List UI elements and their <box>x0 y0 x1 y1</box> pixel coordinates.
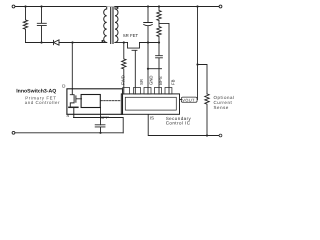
svg-text:GND: GND <box>149 75 154 85</box>
terminal input- <box>12 131 15 134</box>
svg-text:VOUT: VOUT <box>182 97 195 102</box>
node VOUT rail <box>196 5 198 7</box>
terminal input+ <box>12 5 15 8</box>
wire bottom-left rail <box>15 132 123 134</box>
capacitor clamp C <box>37 7 46 43</box>
resistor FWD R <box>122 43 126 94</box>
svg-text:S: S <box>66 113 69 118</box>
node clamp C bottom <box>40 41 42 43</box>
resistor divider upper <box>157 7 161 24</box>
svg-text:FWD: FWD <box>121 75 126 85</box>
node divider top <box>158 5 160 7</box>
IC secondary inner rect <box>125 97 176 110</box>
svg-text:BPS: BPS <box>158 76 163 85</box>
wire gnd tee <box>148 68 162 70</box>
node sense tap <box>196 63 198 65</box>
svg-text:InnoSwitch3-AQ: InnoSwitch3-AQ <box>16 89 56 95</box>
pin pill VOUT <box>181 97 197 102</box>
resistor divider lower <box>157 23 161 42</box>
node clamp C top <box>40 5 42 7</box>
wire diode to primary <box>59 42 107 44</box>
wire S rail <box>74 118 124 133</box>
wire VOUT stub <box>180 99 182 101</box>
resistor clamp R <box>23 7 27 43</box>
node BPP gnd <box>99 132 101 134</box>
terminal output+ <box>219 5 222 8</box>
pin box GND <box>144 88 151 94</box>
svg-text:Control IC: Control IC <box>166 121 191 126</box>
diode clamp triangle <box>54 40 60 45</box>
wire top-right rail <box>115 6 219 8</box>
wire secondary bottom lead <box>115 42 128 44</box>
secondary phase dot <box>116 7 118 9</box>
wire BPP drop <box>100 108 102 125</box>
wire SR source <box>140 42 160 44</box>
svg-text:IS: IS <box>150 115 154 120</box>
wire clamp bottom <box>26 42 54 44</box>
pin box SR <box>134 88 141 94</box>
wire rail shadow over core <box>107 6 115 8</box>
node sense bottom <box>206 134 208 136</box>
node GND col <box>147 41 149 43</box>
FluxLink dashed <box>101 100 121 102</box>
wire FB tap <box>159 23 169 94</box>
IC secondary body <box>121 94 179 114</box>
capacitor BPS <box>156 43 163 94</box>
primary FET source bar <box>69 106 78 108</box>
capacitor output C1 <box>144 7 153 43</box>
svg-text:D: D <box>62 84 65 89</box>
node FWD tap <box>123 41 125 43</box>
wire drain drop <box>71 43 73 89</box>
transformer core <box>111 8 113 44</box>
wire top-left rail <box>15 6 107 8</box>
SR FET <box>128 43 140 49</box>
pin box FWD <box>123 88 130 94</box>
capacitor BPP <box>95 125 105 133</box>
resistor current sense <box>205 94 209 136</box>
wire VOUT riser <box>197 7 199 100</box>
IC primary controller <box>81 95 100 108</box>
svg-text:FB: FB <box>171 79 176 85</box>
terminal output- <box>219 134 222 137</box>
primary phase dot <box>101 40 103 42</box>
node drain <box>71 41 73 43</box>
wire IS drop and output- rail <box>148 115 219 136</box>
node C1 top <box>147 5 149 7</box>
diode clamp cathode bar <box>53 40 55 44</box>
IC primary box <box>67 89 123 115</box>
svg-text:and Controller: and Controller <box>25 100 60 105</box>
wire GND column <box>147 43 149 94</box>
svg-text:BPP: BPP <box>100 115 109 120</box>
node divider bottom <box>158 41 160 43</box>
svg-text:SR FET: SR FET <box>123 33 139 38</box>
transformer T1 secondary winding <box>115 7 118 43</box>
wire sense branch <box>198 65 208 94</box>
node clamp R top <box>24 5 26 7</box>
svg-text:Sense: Sense <box>214 105 229 110</box>
node BPS cap gnd tee <box>147 68 149 70</box>
svg-text:SR: SR <box>139 79 144 85</box>
pin box BPS <box>155 88 162 94</box>
primary FET Q <box>70 89 81 118</box>
pin box FB <box>165 88 172 94</box>
transformer T1 primary winding <box>104 7 107 43</box>
